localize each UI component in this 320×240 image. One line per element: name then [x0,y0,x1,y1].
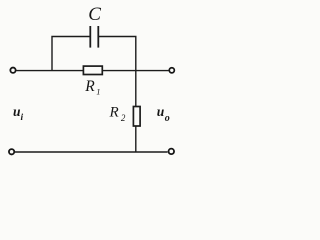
wire: node down to R2 [135,71,137,106]
wire: bottom rail [15,151,168,153]
terminal: input top [10,68,15,73]
svg-text:C: C [88,4,101,25]
resistor R1 body [83,66,102,74]
wire: top rail from input terminal to output terminal [16,70,168,72]
wire: right run of capacitor branch down to node [99,37,136,71]
paper background [0,0,220,179]
resistor R2 body [133,107,140,127]
wire: R2 to bottom rail [135,127,137,153]
terminal: output bottom [169,149,175,155]
terminal: input bottom [9,149,14,154]
capacitor C plates [90,26,98,48]
terminal: output top [169,68,174,73]
wire: left riser and top run of capacitor branch [52,37,90,71]
